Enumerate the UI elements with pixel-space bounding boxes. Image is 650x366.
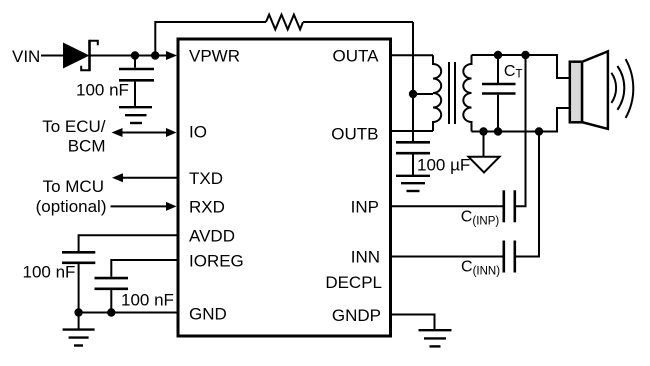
svg-text:To MCU: To MCU: [43, 177, 104, 196]
svg-text:100 µF: 100 µF: [417, 155, 470, 174]
svg-text:OUTA: OUTA: [333, 47, 380, 66]
svg-text:IO: IO: [189, 123, 207, 142]
svg-text:INN: INN: [351, 247, 380, 266]
svg-text:(optional): (optional): [36, 197, 107, 216]
svg-text:DECPL: DECPL: [325, 273, 382, 292]
svg-text:OUTB: OUTB: [331, 125, 378, 144]
svg-text:GNDP: GNDP: [332, 306, 381, 325]
svg-text:100 nF: 100 nF: [23, 263, 76, 282]
svg-text:100 nF: 100 nF: [121, 290, 174, 309]
svg-text:IOREG: IOREG: [189, 252, 244, 271]
svg-text:BCM: BCM: [68, 137, 106, 156]
svg-text:To ECU/: To ECU/: [42, 117, 106, 136]
svg-text:INP: INP: [351, 198, 379, 217]
svg-text:VPWR: VPWR: [189, 47, 240, 66]
svg-text:VIN: VIN: [12, 47, 40, 66]
svg-text:100 nF: 100 nF: [76, 81, 129, 100]
svg-text:AVDD: AVDD: [189, 227, 235, 246]
svg-text:RXD: RXD: [189, 198, 225, 217]
svg-text:TXD: TXD: [189, 169, 223, 188]
svg-text:GND: GND: [189, 305, 227, 324]
